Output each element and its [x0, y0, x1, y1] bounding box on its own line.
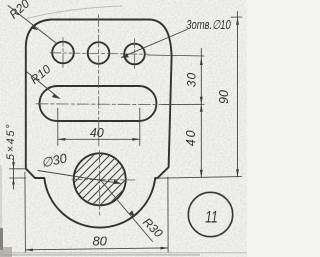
long vertical centerline (hole 2 / slot / D30): [98, 15, 100, 147]
faint bottom frame line: [0, 252, 247, 253]
leader R10: [27, 72, 60, 99]
slot (obround): [40, 86, 157, 121]
hole 2: [88, 42, 110, 64]
slot horizontal centerline: [36, 103, 162, 106]
hole 3: [124, 44, 145, 65]
svg-text:40: 40: [184, 128, 198, 146]
scan smudge bottom-left corner: [0, 247, 12, 257]
leader R20: [8, 6, 56, 44]
page curl artifact line (top): [27, 6, 122, 19]
chamfer 5x45 dimension line: [13, 159, 15, 190]
circle D30 (hatched): [74, 153, 126, 205]
extension line: bottom step (lower end of 40 and 90 dims): [157, 177, 242, 179]
svg-text:80: 80: [92, 233, 107, 248]
arrow 30-dim top: [200, 58, 203, 66]
label 3otv D10: [186, 19, 231, 33]
balloon circle 11: [188, 192, 232, 236]
arrows 30/40 junction: [200, 97, 203, 105]
arrow 90 bottom: [236, 169, 239, 177]
arrows 40 slot dim: [58, 138, 66, 141]
dimension line 30 / 40 (right side, x=201): [200, 49, 202, 178]
D30 horizontal centerline: [72, 178, 135, 181]
scan smudge left edge: [0, 228, 3, 250]
hole 1 vertical centerline: [62, 38, 64, 69]
arrow 40-dim bottom: [200, 170, 203, 178]
paper background: [0, 0, 247, 257]
arrow 3 holes leader: [121, 53, 129, 58]
arrows 80 dim: [25, 249, 33, 252]
leader D30: [38, 171, 120, 184]
svg-text:11: 11: [205, 209, 218, 227]
extension line: hole center to 30-dim: [148, 55, 204, 56]
arrow R20: [30, 25, 38, 30]
extension lines for 80: [25, 172, 168, 253]
arrow R30 leader: [129, 210, 135, 217]
svg-text:90: 90: [217, 90, 231, 104]
arrows 5x45 (outside): [12, 162, 15, 169]
hatching of D30: [75, 154, 126, 205]
dimension line 40 (under slot): [58, 138, 140, 140]
svg-text:3отв.∅10: 3отв.∅10: [186, 19, 231, 33]
svg-text:30: 30: [185, 72, 199, 87]
svg-text:40: 40: [90, 126, 104, 140]
extension lines for 40: [58, 108, 140, 146]
arrow D30 leader: [113, 180, 121, 184]
arrowheads: [12, 17, 239, 251]
centerline through holes: [50, 53, 148, 54]
chamfer 5x45 extension lines: [10, 169, 27, 178]
hole 3 vertical centerline: [134, 39, 136, 71]
label 11 (balloon): [205, 209, 218, 227]
arrow 90 top: [236, 17, 239, 25]
hole 1: [52, 42, 74, 64]
leader 3 holes D10: [122, 30, 188, 58]
plate outline: [26, 20, 172, 228]
arrow R10: [52, 94, 60, 99]
dimension line 80 (bottom): [25, 248, 168, 250]
extension line: top of 90 dim: [231, 16, 242, 18]
svg-text:5×45°: 5×45°: [5, 123, 17, 160]
leader R30: [100, 180, 153, 242]
dimension line 90: [237, 12, 239, 177]
extension line: slot center to 30/40-dim: [162, 103, 204, 105]
